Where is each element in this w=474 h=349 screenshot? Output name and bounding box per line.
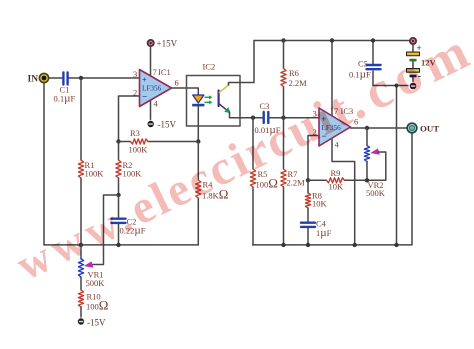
wire IC3 output to OUT (351, 127, 407, 129)
wire IN jack to C1 and on to IC1 pin3 (49, 77, 140, 79)
node pin4 on rail (353, 243, 357, 247)
label VR1 500K (86, 270, 106, 289)
resistor R8 wires (307, 180, 309, 221)
capacitor C1 (63, 73, 67, 85)
svg-text:100K: 100K (85, 169, 105, 179)
label C1 value (54, 85, 76, 105)
svg-text:0.1µF: 0.1µF (54, 93, 76, 105)
svg-text:www.eleccircuit.com: www.eleccircuit.com (6, 21, 474, 291)
wire VR1 wiper to R2/C2 node (93, 195, 119, 265)
wire IC3 pin2 (308, 136, 319, 181)
capacitor C3 (264, 112, 269, 123)
terminal +12V (410, 38, 416, 44)
LED of IC2 (192, 95, 204, 106)
terminal battery minus (410, 83, 417, 90)
capacitor C5 (367, 65, 381, 69)
svg-text:2.2M: 2.2M (289, 78, 308, 88)
svg-text:+15V: +15V (157, 39, 178, 49)
label VR2 500K (366, 180, 386, 198)
svg-text:R3: R3 (130, 128, 140, 138)
node pin7 top rail (330, 38, 334, 42)
node VR2 R9 junction (365, 178, 369, 182)
wire battery minus down to rail (396, 86, 398, 245)
svg-text:IN: IN (28, 75, 39, 85)
resistor R10 (78, 290, 83, 307)
svg-text:500K: 500K (86, 278, 106, 288)
node R7 on rail (281, 243, 285, 247)
node C4 on rail (306, 243, 310, 247)
capacitor C5 wires (372, 41, 374, 86)
svg-text:IC1: IC1 (158, 67, 171, 77)
ground rail left segment (44, 244, 198, 246)
node battery minus on rail (394, 243, 398, 247)
svg-text:C3: C3 (260, 101, 270, 111)
resistor R4 wires (197, 142, 199, 245)
terminal -15V IC1 (148, 121, 154, 127)
node C5 top rail (371, 38, 375, 42)
svg-text:100K: 100K (123, 169, 143, 179)
svg-text:-15V: -15V (87, 318, 106, 328)
label R3 100K (129, 128, 149, 155)
label C2 value (120, 217, 146, 237)
resistor R7 wires (283, 118, 285, 245)
op-amp IC3 (319, 108, 351, 146)
svg-text:OUT: OUT (420, 124, 439, 134)
svg-text:2.2M: 2.2M (287, 178, 306, 188)
node R1 VR1 on rail (79, 243, 83, 247)
svg-text:−: − (142, 92, 147, 102)
resistor R1 column wires (80, 78, 82, 245)
node R6 top rail (281, 38, 285, 42)
node junction after C1 (79, 76, 83, 80)
VR1 wiper arrow (84, 261, 94, 267)
svg-text:7: 7 (153, 67, 157, 77)
resistor R8 (305, 193, 310, 208)
label R8 10K (312, 191, 328, 209)
output jack OUT (407, 123, 417, 133)
wire IC3 pin7 to rail (331, 41, 333, 117)
terminal +15V (148, 40, 154, 46)
potentiometer VR1 (78, 259, 83, 278)
resistor R2 wires (118, 142, 120, 196)
resistor R3 wires (119, 141, 199, 143)
node battery minus wire tee (395, 84, 399, 88)
svg-text:-15V: -15V (158, 120, 177, 130)
potentiometer VR2 (364, 146, 369, 162)
label R10 100ohm (86, 292, 108, 313)
IC2 box (187, 76, 241, 127)
phototransistor of IC2 (219, 85, 231, 113)
wire R10 to -15V (80, 307, 82, 317)
wire IC3 pin4 down to rail (332, 139, 355, 245)
svg-text:100K: 100K (129, 145, 149, 155)
VR2 wiper arrow (370, 148, 380, 154)
battery 12V (407, 45, 420, 82)
wire emitter to C3 node (230, 112, 263, 118)
svg-text:10K: 10K (329, 182, 345, 192)
IC3 pin labels (313, 106, 359, 150)
node pin2 R8 R9 junction (306, 178, 310, 182)
wire VR2 wiper loop (367, 152, 386, 180)
terminal -15V bottom (78, 318, 84, 324)
label R5 100ohm (256, 169, 278, 191)
resistor R1 (78, 160, 83, 178)
resistor R6 (281, 69, 286, 87)
resistor R2 (116, 160, 121, 178)
node R2 R3 junction (116, 139, 120, 143)
LED light arrows (205, 95, 213, 104)
label C5 value (349, 59, 371, 81)
label R1 100K (85, 160, 105, 179)
svg-text:R9: R9 (331, 168, 341, 178)
capacitor C4 (301, 223, 315, 227)
wire battery minus row (373, 85, 408, 87)
op-amp IC1 power wires (150, 48, 152, 120)
node R3 R4 LED junction (196, 139, 200, 143)
resistor R5 (250, 169, 255, 187)
svg-text:+: + (142, 76, 147, 85)
battery plus minus marks (417, 43, 422, 82)
label R2 100K (123, 160, 143, 179)
resistor R4 (196, 180, 201, 198)
node output VR2 junction (365, 126, 369, 130)
label R4 1.8Kohm (202, 180, 228, 202)
wire collector up to top rail (229, 41, 255, 86)
svg-text:4: 4 (154, 99, 159, 109)
label R7 2.2M (287, 169, 306, 188)
IC1 pin labels (133, 67, 179, 109)
input jack IN (39, 73, 48, 82)
svg-text:10K: 10K (312, 199, 328, 209)
resistor R9 (327, 178, 345, 183)
capacitor C2 wires (118, 195, 120, 245)
ground rail right segment (253, 133, 412, 245)
wire IN column down to ground rail (43, 83, 45, 245)
wire C3 to IC3 pin3 (270, 117, 319, 119)
resistor R9 wires (308, 179, 367, 181)
wire IC1 pin2 feedback (119, 96, 140, 142)
svg-text:500K: 500K (366, 188, 386, 198)
node emitter R5 junction (251, 116, 255, 120)
resistor R3 (131, 139, 149, 144)
svg-text:3: 3 (133, 69, 137, 79)
node R6 R7 pin3 junction (281, 116, 285, 120)
top supply rail (254, 40, 409, 42)
svg-text:6: 6 (175, 78, 179, 88)
wire IC1 output into IC2 LED (172, 88, 199, 95)
potentiometer VR1 wires (80, 245, 82, 290)
label C4 value (316, 219, 332, 240)
resistor R5 wires (252, 118, 254, 245)
capacitor C2 (112, 219, 126, 223)
node R2 C2 wiper junction (116, 193, 120, 197)
resistor R6 wires (283, 41, 285, 118)
resistor R7 (281, 169, 286, 187)
svg-text:1µF: 1µF (316, 227, 332, 239)
wire C4 to rail (307, 228, 309, 245)
wire LED cathode down to R3/R4 node (197, 106, 199, 141)
potentiometer VR2 wires (366, 128, 368, 180)
svg-text:R6: R6 (289, 68, 299, 78)
svg-text:2: 2 (133, 88, 137, 98)
op-amp IC1 (140, 70, 172, 107)
node C2 on rail (116, 243, 120, 247)
label R9 10K (329, 168, 345, 192)
svg-text:IC2: IC2 (203, 62, 216, 72)
label C3 value (255, 101, 281, 136)
label R6 2.2M (289, 68, 308, 88)
